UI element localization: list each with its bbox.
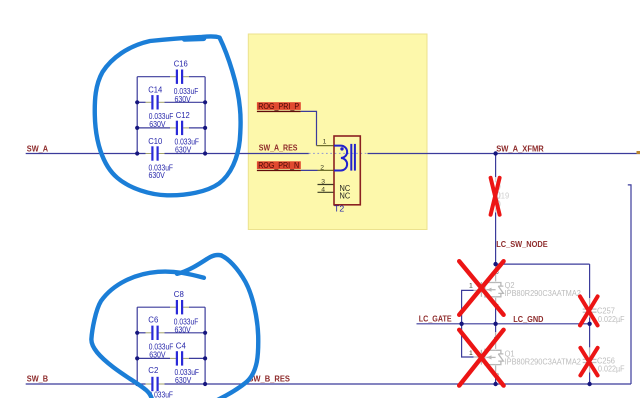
svg-text:LC_SW_NODE: LC_SW_NODE xyxy=(496,240,548,249)
svg-text:T2: T2 xyxy=(334,205,345,214)
svg-text:IPB80R290C3AATMA2: IPB80R290C3AATMA2 xyxy=(505,289,582,298)
svg-text:630V: 630V xyxy=(175,145,192,154)
svg-text:SW_A_RES: SW_A_RES xyxy=(259,143,298,152)
svg-text:SW_B: SW_B xyxy=(27,375,48,384)
svg-text:C14: C14 xyxy=(148,85,162,94)
svg-text:IPB80R290C3AATMA2: IPB80R290C3AATMA2 xyxy=(505,357,582,366)
svg-text:2: 2 xyxy=(320,164,324,171)
svg-text:ROG_PRI_P: ROG_PRI_P xyxy=(258,102,299,111)
svg-text:LC_GND: LC_GND xyxy=(513,315,543,324)
svg-text:C2: C2 xyxy=(148,366,158,375)
svg-text:630V: 630V xyxy=(175,376,192,385)
svg-text:630V: 630V xyxy=(149,171,166,180)
svg-text:L19: L19 xyxy=(497,192,510,201)
svg-text:C4: C4 xyxy=(176,341,186,350)
svg-text:C6: C6 xyxy=(148,316,158,325)
svg-text:SW_A_XFMR: SW_A_XFMR xyxy=(496,145,544,154)
svg-text:0.022µF: 0.022µF xyxy=(598,364,625,373)
svg-text:630V: 630V xyxy=(149,120,166,129)
svg-text:SW_A: SW_A xyxy=(27,144,48,153)
svg-text:SW_B_RES: SW_B_RES xyxy=(248,375,290,384)
svg-text:4: 4 xyxy=(321,187,325,194)
svg-text:1: 1 xyxy=(469,282,473,289)
svg-text:LC_GATE: LC_GATE xyxy=(419,315,452,324)
svg-text:C16: C16 xyxy=(174,60,188,69)
svg-text:630V: 630V xyxy=(175,95,192,104)
svg-text:1: 1 xyxy=(323,139,327,146)
svg-text:3: 3 xyxy=(321,179,325,186)
svg-text:1: 1 xyxy=(469,350,473,357)
svg-text:630V: 630V xyxy=(149,351,166,360)
svg-text:C10: C10 xyxy=(148,137,162,146)
svg-text:NC: NC xyxy=(340,191,351,200)
svg-text:0.022µF: 0.022µF xyxy=(598,315,625,324)
svg-text:C8: C8 xyxy=(174,290,184,299)
svg-text:ROG_PRI_N: ROG_PRI_N xyxy=(258,161,299,170)
svg-text:C12: C12 xyxy=(176,111,190,120)
svg-text:630V: 630V xyxy=(175,326,192,335)
